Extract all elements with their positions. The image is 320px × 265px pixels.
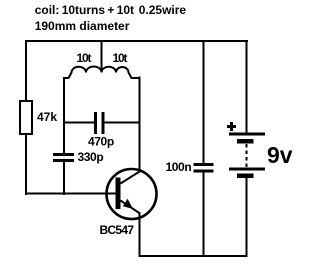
wire: coil left branch vertical (coil end down to 330p top plate)	[63, 77, 65, 153]
wire: bottom rail horizontal	[139, 255, 248, 257]
transistor Q1 emitter arrowhead	[123, 199, 133, 209]
svg-text:47k: 47k	[37, 110, 57, 124]
capacitor C1 470p plates	[94, 112, 97, 134]
wire: emitter vertical down to bottom rail	[139, 212, 141, 257]
battery B1 bottom cell short plate	[237, 174, 254, 179]
transistor Q1 emitter diagonal	[121, 201, 141, 214]
svg-text:330p: 330p	[78, 150, 104, 164]
battery B1 bottom cell long plate	[229, 168, 265, 171]
capacitor C3 100n plates	[194, 163, 214, 166]
transistor Q1 base bar	[116, 178, 121, 210]
svg-text:10t: 10t	[77, 51, 92, 65]
svg-text:10t: 10t	[113, 51, 128, 65]
wire: coil left branch lower (330p bottom plate to base wire)	[63, 162, 65, 195]
wire: left rail lower (resistor to base wire)	[25, 135, 27, 195]
battery B1 plus sign	[227, 125, 236, 128]
svg-text:9v: 9v	[267, 142, 293, 168]
wire: coil center tap vertical	[101, 40, 103, 71]
wire: 100n branch lower vertical	[203, 173, 205, 258]
wire: base wire horizontal	[25, 193, 116, 195]
wire: battery rail lower vertical	[246, 178, 248, 257]
svg-text:470p: 470p	[88, 135, 114, 149]
battery B1 top cell long plate	[229, 133, 265, 136]
resistor R1 47k	[20, 101, 32, 134]
wire: 470p wire right segment	[105, 122, 141, 124]
svg-text:190mm diameter: 190mm diameter	[35, 19, 130, 33]
inductor L1/L2 coil bumps with end stubs	[64, 67, 140, 80]
wire: 100n branch upper vertical	[203, 40, 205, 163]
svg-text:BC547: BC547	[100, 223, 135, 237]
battery B1 top cell short plate	[237, 139, 254, 144]
wire: battery rail upper vertical	[246, 40, 248, 133]
transistor Q1 collector diagonal	[121, 172, 140, 184]
wire: 470p wire left segment	[63, 122, 94, 124]
wire: top rail horizontal	[25, 40, 248, 42]
capacitor C2 330p plates	[53, 153, 74, 156]
svg-text:100n: 100n	[166, 160, 192, 174]
wire: left rail upper (top rail to resistor)	[25, 40, 27, 101]
transistor Q1 BC547 circle	[107, 169, 157, 219]
svg-text:coil: 10turns + 10t 0.25wire: coil: 10turns + 10t 0.25wire	[35, 3, 187, 17]
battery B1 dashed link	[246, 144, 248, 168]
wire: collector vertical (coil right end down to transistor)	[139, 77, 141, 173]
